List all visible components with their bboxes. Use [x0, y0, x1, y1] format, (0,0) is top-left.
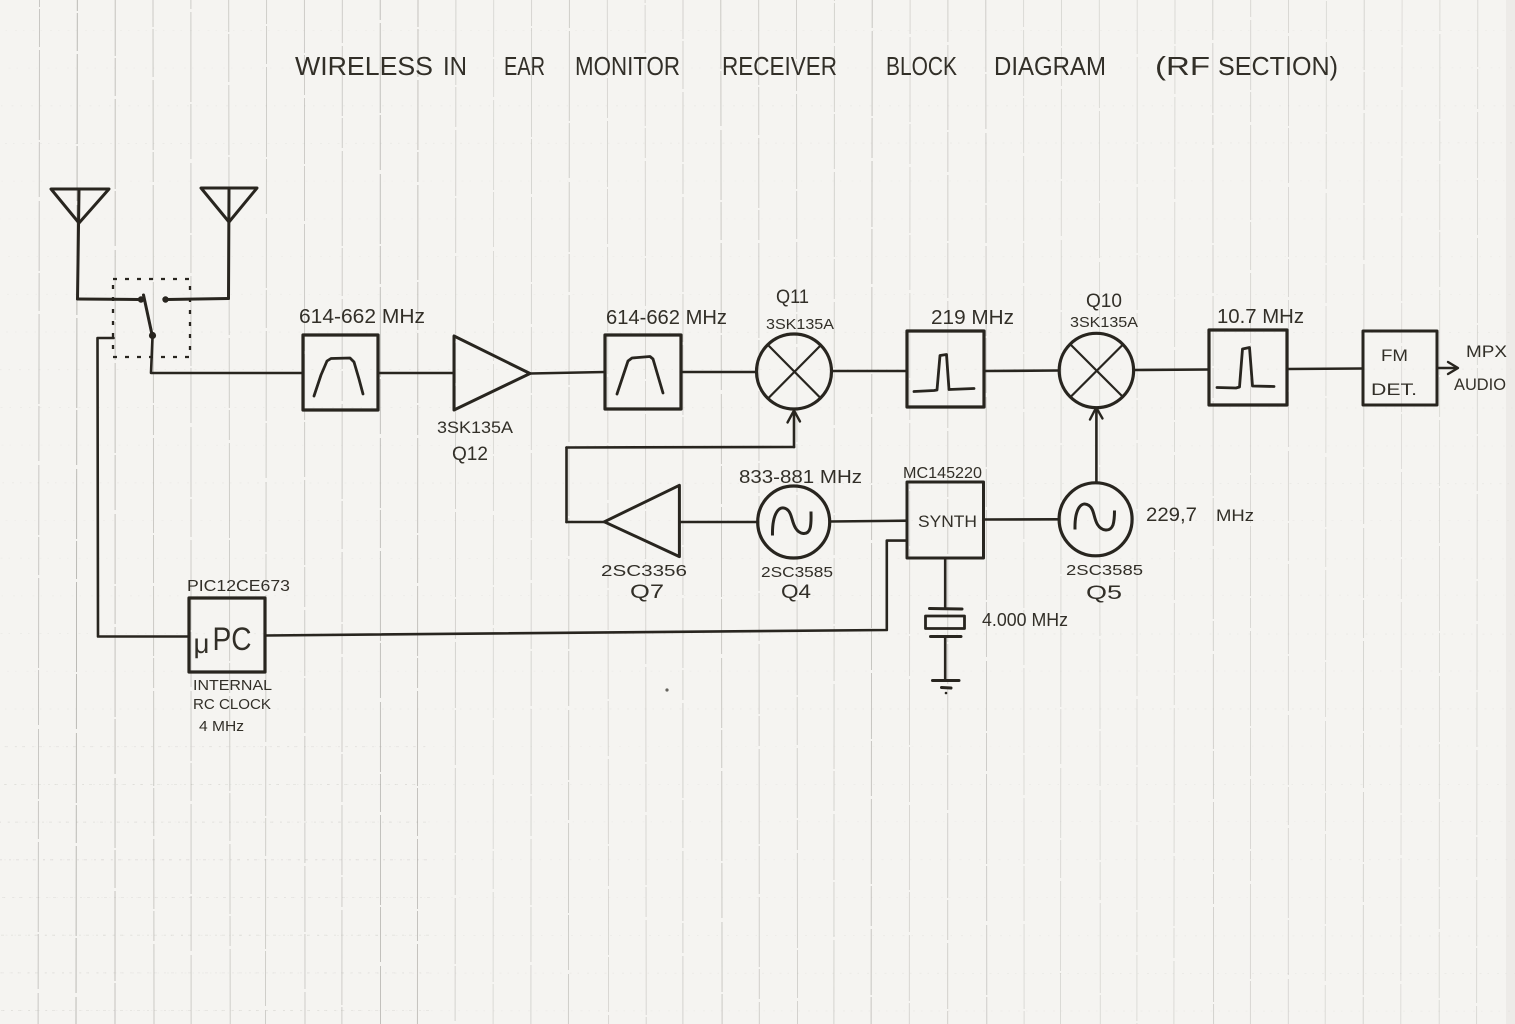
svg-text:BLOCK: BLOCK: [886, 51, 958, 81]
band-pass filter FL1 (614-662 MHz): [303, 335, 378, 410]
wire ANT2 feed to switch contact: [167, 299, 229, 300]
switch S1 contacts and lever: [138, 295, 169, 339]
microcontroller U2 (uPC box): [189, 598, 265, 672]
svg-text:FM: FM: [1381, 346, 1408, 365]
wire Q11 to filter FL3: [832, 370, 908, 373]
amplifier Q12 (triangle): [454, 336, 530, 410]
amplifier Q7 (left-pointing triangle): [604, 485, 679, 556]
svg-text:Q4: Q4: [781, 582, 811, 603]
svg-text:SECTION): SECTION): [1218, 51, 1338, 81]
oscillator Q4 (circle with sine): [758, 486, 830, 558]
band-pass filter FL3 (219 MHz): [907, 331, 984, 407]
svg-text:MHz: MHz: [1216, 506, 1254, 525]
wire synthesizer to crystal X1: [944, 558, 947, 609]
wire Q12 to filter FL2: [530, 372, 605, 374]
wire ANT1 feed to switch contact: [78, 298, 140, 302]
title: WIRELESS IN EAR MONITOR RECEIVER BLOCK DIAGRAM (RF SECTION): [295, 51, 1338, 81]
svg-text:RC CLOCK: RC CLOCK: [193, 697, 271, 713]
svg-text:833-881 MHz: 833-881 MHz: [739, 467, 862, 487]
mixer Q11 (circle with X): [757, 334, 832, 409]
FM detector block: [1363, 331, 1437, 405]
svg-text:AUDIO: AUDIO: [1454, 375, 1506, 394]
svg-text:4 MHz: 4 MHz: [199, 718, 244, 735]
svg-text:WIRELESS: WIRELESS: [295, 51, 433, 81]
wire Q10 to filter FL4: [1134, 368, 1209, 371]
svg-text:229,7: 229,7: [1146, 505, 1197, 526]
wire FL2 to mixer Q11: [681, 371, 756, 374]
svg-text:2SC3585: 2SC3585: [761, 564, 833, 581]
value label 229.7 MHz: [1146, 505, 1254, 526]
svg-text:PC: PC: [213, 621, 252, 657]
net label MPX AUDIO: [1454, 342, 1507, 394]
crystal X1: [926, 609, 965, 637]
wire LO1 injection into Q11 (arrow up): [788, 411, 801, 448]
antenna ANT2: [201, 188, 257, 299]
svg-text:EAR: EAR: [504, 51, 545, 81]
svg-text:2SC3585: 2SC3585: [1066, 562, 1143, 579]
wire LO1 horizontal segment: [567, 446, 795, 449]
band-pass filter FL2 (614-662 MHz): [605, 335, 681, 409]
mixer Q10 (circle with X): [1059, 333, 1133, 407]
wire crystal to ground: [944, 637, 947, 680]
svg-text:3SK135A: 3SK135A: [437, 418, 514, 437]
svg-text:Q7: Q7: [630, 582, 664, 603]
svg-text:4.000 MHz: 4.000 MHz: [982, 610, 1068, 630]
wire LO1 to amplifier Q7 output: [567, 521, 606, 524]
svg-text:Q11: Q11: [776, 287, 809, 308]
svg-text:Q5: Q5: [1086, 583, 1122, 604]
antenna ANT1: [51, 189, 109, 299]
svg-text:Q10: Q10: [1086, 291, 1122, 312]
svg-text:INTERNAL: INTERNAL: [193, 678, 272, 694]
svg-text:(RF: (RF: [1155, 51, 1210, 81]
svg-text:IN: IN: [443, 51, 467, 81]
svg-text:MC145220: MC145220: [903, 465, 982, 482]
wire synthesizer to oscillator Q5: [984, 518, 1060, 521]
ground: [933, 681, 960, 695]
stray pencil speck: [665, 688, 668, 691]
control wire uPC to synthesizer: [265, 541, 907, 636]
svg-text:3SK135A: 3SK135A: [1070, 314, 1138, 331]
wire oscillator Q4 to Q7: [679, 521, 758, 524]
svg-text:10.7 MHz: 10.7 MHz: [1217, 306, 1304, 328]
wire Q4 to synthesizer: [830, 519, 907, 522]
svg-text:SYNTH: SYNTH: [918, 512, 977, 531]
svg-text:2SC3356: 2SC3356: [601, 563, 687, 580]
note INTERNAL RC CLOCK 4 MHz: [193, 678, 272, 735]
svg-text:DIAGRAM: DIAGRAM: [994, 51, 1106, 81]
svg-text:μ: μ: [194, 628, 210, 659]
wire LO2 from Q5 into Q10 (arrow up): [1090, 408, 1103, 483]
svg-text:DET.: DET.: [1371, 380, 1417, 399]
oscillator Q5 (circle with sine): [1059, 483, 1132, 556]
svg-text:219 MHz: 219 MHz: [931, 307, 1014, 329]
svg-text:Q12: Q12: [452, 444, 488, 465]
control wire uPC to antenna switch: [98, 338, 190, 637]
band-pass filter FL4 (10.7 MHz): [1209, 330, 1287, 405]
svg-text:RECEIVER: RECEIVER: [722, 51, 837, 81]
wire FM detector output with arrow: [1437, 362, 1458, 374]
svg-text:614-662 MHz: 614-662 MHz: [606, 307, 727, 329]
wire FL1 to amplifier Q12: [378, 372, 454, 375]
svg-text:MONITOR: MONITOR: [575, 51, 680, 81]
synthesizer U1 (SYNTH box): [907, 482, 984, 558]
svg-text:614-662 MHz: 614-662 MHz: [299, 306, 425, 328]
svg-text:3SK135A: 3SK135A: [766, 316, 834, 333]
svg-text:MPX: MPX: [1466, 342, 1507, 361]
wire switch output to filter FL1: [151, 337, 303, 373]
wire FL4 to FM detector: [1287, 367, 1363, 370]
wire FL3 to mixer Q10: [984, 369, 1059, 372]
svg-text:PIC12CE673: PIC12CE673: [187, 578, 290, 595]
wire LO1 vertical segment: [565, 448, 568, 523]
antenna switch S1 dashed enclosure: [113, 279, 190, 357]
